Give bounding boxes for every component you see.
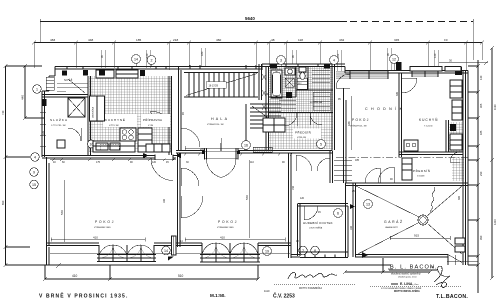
kitchen dresser right xyxy=(138,128,152,152)
bath dense fixtures extra xyxy=(279,70,330,110)
svg-text:KUCHYŇ: KUCHYŇ xyxy=(419,118,438,122)
svg-text:2: 2 xyxy=(151,58,153,62)
extension lines from dim row to walls xyxy=(34,22,482,72)
chimney black top kitchen xyxy=(99,70,105,76)
svg-text:118: 118 xyxy=(298,38,303,42)
svg-text:7: 7 xyxy=(302,249,304,253)
svg-text:690: 690 xyxy=(1,200,5,205)
bath boiler black xyxy=(286,92,292,98)
room label HUDEBNI KOUTEK xyxy=(303,221,333,230)
svg-text:305: 305 xyxy=(479,103,483,108)
wall pantry bottom xyxy=(42,95,88,98)
wall predsin entry left xyxy=(330,151,333,184)
garage vent squiggle xyxy=(431,187,435,213)
pantry shelf column xyxy=(46,77,54,90)
window french unit 1 xyxy=(97,245,156,262)
hala closet right xyxy=(263,118,285,132)
svg-text:V.ČTV. 3M: V.ČTV. 3M xyxy=(109,124,119,127)
svg-text:T.L.BACON.: T.L.BACON. xyxy=(436,294,468,300)
bath washbasin xyxy=(285,68,295,75)
title block BL BACON xyxy=(381,265,438,294)
svg-text:KUCHYNĚ: KUCHYNĚ xyxy=(105,117,126,122)
svg-text:CHODNÍK: CHODNÍK xyxy=(365,107,405,111)
svg-text:120: 120 xyxy=(152,161,157,164)
door arc pokoj1 from hall xyxy=(181,128,200,147)
svg-text:VÝŠKA MEZ. BES.: VÝŠKA MEZ. BES. xyxy=(94,226,111,229)
svg-text:WC: WC xyxy=(298,83,302,85)
svg-text:185: 185 xyxy=(479,130,483,135)
svg-text:VÝŠKA PODL. 3M: VÝŠKA PODL. 3M xyxy=(207,123,224,126)
room label PREDSIN right wing xyxy=(413,168,431,178)
hatch wc right xyxy=(448,122,463,152)
door arc kuchyn right wing xyxy=(402,78,417,93)
title block dotted rule xyxy=(370,286,462,288)
svg-text:MOTTO STAVEBNÍKA: MOTTO STAVEBNÍKA xyxy=(299,287,322,290)
svg-text:Č.V. 2253: Č.V. 2253 xyxy=(273,293,295,300)
door sill triangle pokoj1 xyxy=(168,257,174,261)
svg-text:3: 3 xyxy=(280,58,282,62)
svg-text:188: 188 xyxy=(347,121,351,126)
scattered tiny dimension numbers xyxy=(42,91,461,269)
door arc balcony from bath corridor xyxy=(336,74,350,88)
wall right wing pokoj-kuchyn xyxy=(399,73,402,157)
svg-text:140: 140 xyxy=(265,93,270,96)
garage corner triangle mark xyxy=(362,252,368,258)
sluzka wardrobe X xyxy=(68,98,85,117)
svg-text:LAVAGE MYTÍ: LAVAGE MYTÍ xyxy=(385,226,398,229)
window mullion ticks top wall left wing xyxy=(67,64,318,69)
wall music nook top xyxy=(298,204,349,207)
shaft marks left of bath xyxy=(262,74,266,110)
wall pokoj bottoms xyxy=(47,243,301,257)
svg-text:14: 14 xyxy=(164,249,168,253)
pantry extra shelf lines xyxy=(57,83,88,91)
svg-text:160: 160 xyxy=(350,225,353,230)
wall stair block right xyxy=(259,64,262,100)
svg-text:740: 740 xyxy=(1,110,5,115)
bottom dimension line right short xyxy=(343,258,432,274)
door arc predsin entry second xyxy=(317,158,330,171)
svg-text:HALA: HALA xyxy=(211,117,229,121)
kitchen range hood detail top xyxy=(96,70,138,78)
svg-text:1210: 1210 xyxy=(493,219,497,225)
door arc sluzka xyxy=(68,128,81,141)
right wing kuchyn fixtures xyxy=(404,134,462,151)
bath extra fixtures dark xyxy=(285,78,307,89)
svg-text:zkoušený stavitel, oprávněný: zkoušený stavitel, oprávněný xyxy=(391,272,421,275)
small tick marks row under kitchen wall xyxy=(50,153,293,161)
bath wc bowl xyxy=(299,67,306,80)
signature dotted underline xyxy=(274,284,356,286)
wall hala left vertical xyxy=(179,66,182,150)
staircase main treads xyxy=(184,73,258,98)
kitchen table dashed xyxy=(100,145,119,150)
svg-text:6: 6 xyxy=(337,211,339,215)
svg-text:440: 440 xyxy=(21,95,25,100)
door arc garage predsin xyxy=(365,168,380,183)
wall wc left xyxy=(446,120,449,152)
wall top outer right wing xyxy=(345,67,468,266)
title block dash marks E LINA xyxy=(391,284,398,285)
svg-text:VÝŠKA MEZ. BES.: VÝŠKA MEZ. BES. xyxy=(217,226,234,229)
interior dim vertical pokoj2 xyxy=(245,160,249,238)
window french unit 2 xyxy=(200,243,260,262)
pripravna counter xyxy=(146,144,170,152)
dimension line top overall xyxy=(40,19,473,24)
garage inner dim xyxy=(390,234,450,241)
garage drain circle xyxy=(418,215,428,225)
svg-text:120: 120 xyxy=(433,53,437,58)
svg-text:19: 19 xyxy=(265,249,269,253)
sluzka window sill marks xyxy=(40,112,46,146)
wall pripravna right vertical xyxy=(169,76,172,156)
garage right entrance hatch xyxy=(448,238,465,263)
svg-text:305: 305 xyxy=(396,91,399,96)
svg-text:1130: 1130 xyxy=(493,104,497,110)
svg-text:12: 12 xyxy=(392,57,396,61)
wall right outer xyxy=(463,71,466,266)
wall right wing pokoj left xyxy=(344,88,347,183)
door arc wc xyxy=(450,152,460,162)
room label HALA xyxy=(207,117,229,126)
room label PREDSIN entry xyxy=(293,129,321,140)
svg-text:120: 120 xyxy=(300,197,305,200)
svg-text:14: 14 xyxy=(134,57,138,61)
sluzka stove corner xyxy=(57,140,65,148)
staircase entry steps right of hala xyxy=(246,104,281,150)
svg-text:390: 390 xyxy=(458,195,461,200)
svg-text:410: 410 xyxy=(220,236,225,240)
axis bubbles top row xyxy=(132,55,399,65)
wall garage bottom xyxy=(355,255,448,266)
svg-text:V.PRL.3M: V.PRL.3M xyxy=(297,137,306,139)
dimension line right vertical 1 xyxy=(468,60,480,293)
entry steps outside xyxy=(334,160,352,180)
svg-text:100: 100 xyxy=(430,266,435,269)
svg-text:GARÁŽ: GARÁŽ xyxy=(384,219,404,224)
wall kitchen bottom xyxy=(42,156,176,159)
right wing closet predsin xyxy=(402,158,412,180)
wall garage top xyxy=(345,183,468,186)
svg-text:140: 140 xyxy=(479,75,483,80)
hala floor hatch box xyxy=(253,147,272,152)
wall garage left xyxy=(353,183,356,257)
svg-text:205: 205 xyxy=(200,148,205,151)
room label KUCHYN right wing xyxy=(419,118,438,128)
svg-text:410: 410 xyxy=(72,274,78,278)
bath door arcs lower xyxy=(284,113,322,126)
door opening pokoj2 french doors xyxy=(202,143,240,178)
handwritten signature xyxy=(288,272,337,279)
svg-text:5640: 5640 xyxy=(245,16,255,21)
bottom dimension line xyxy=(43,265,260,281)
room label POKOJ 2 xyxy=(217,220,238,229)
right corner tick line xyxy=(447,255,478,265)
hatch right porch xyxy=(452,157,464,181)
svg-text:180: 180 xyxy=(200,51,204,56)
svg-text:432: 432 xyxy=(339,38,344,42)
dimension numbers row2 xyxy=(50,38,448,42)
svg-text:8: 8 xyxy=(314,249,316,253)
wall left outer upper xyxy=(42,76,49,157)
interior dim vertical pokoj1 xyxy=(60,180,64,242)
svg-text:LOUKY MĚŘA: LOUKY MĚŘA xyxy=(309,227,323,230)
svg-text:úředně opráv. mistr: úředně opráv. mistr xyxy=(398,276,417,279)
bath partition walls xyxy=(268,66,333,113)
axis bubbles interior xyxy=(88,140,373,256)
wall sluzka-kitchen vertical xyxy=(88,76,91,156)
svg-text:483: 483 xyxy=(50,38,55,42)
svg-text:9: 9 xyxy=(33,170,35,174)
right wing chimney blacks xyxy=(455,67,462,75)
svg-text:1: 1 xyxy=(36,87,38,91)
svg-text:V. 3M: V. 3M xyxy=(148,125,153,127)
svg-text:4: 4 xyxy=(333,58,335,62)
room label KUCHYNE xyxy=(103,114,137,127)
svg-text:PŘÍPRAVNA: PŘÍPRAVNA xyxy=(143,117,162,122)
svg-text:180: 180 xyxy=(163,198,166,203)
svg-text:1 ČTV. PRL. 3M: 1 ČTV. PRL. 3M xyxy=(51,124,66,127)
axis dashdot garage xyxy=(336,157,470,159)
dimension text left outer xyxy=(1,110,5,205)
pantry door diagonal xyxy=(68,79,85,93)
hatch right window strip xyxy=(412,71,438,77)
door arc music nook xyxy=(304,206,318,220)
svg-text:390: 390 xyxy=(479,235,483,240)
svg-text:560: 560 xyxy=(60,210,64,215)
svg-text:T 2.24.30: T 2.24.30 xyxy=(424,126,433,128)
wall music nook left xyxy=(298,204,301,256)
svg-text:±0: ±0 xyxy=(444,38,448,42)
mark triangle music nook xyxy=(350,204,355,209)
garage diagonals to drain xyxy=(356,186,462,255)
dimension line top second xyxy=(32,41,484,45)
svg-text:PŘEDSÍŇ: PŘEDSÍŇ xyxy=(413,168,431,173)
wall left outer lower xyxy=(47,157,50,247)
dimension line left inner vertical xyxy=(23,64,44,120)
svg-text:16·17/29: 16·17/29 xyxy=(209,84,219,87)
svg-text:150: 150 xyxy=(292,185,295,190)
svg-text:345: 345 xyxy=(394,38,399,42)
kitchen counter with sink xyxy=(93,141,135,152)
door arc predsin entry xyxy=(296,155,312,171)
svg-text:HUDEBNÍ KOUTEK: HUDEBNÍ KOUTEK xyxy=(303,221,333,225)
door opening kitchen to pokoj1 xyxy=(143,153,181,181)
wall top outer bath block xyxy=(262,64,345,70)
room label POKOJ 1 xyxy=(94,220,115,229)
chimney black sluzka wall xyxy=(42,99,47,106)
svg-text:218: 218 xyxy=(173,38,178,42)
svg-text:16: 16 xyxy=(244,143,248,147)
room label POKOJ right wing xyxy=(350,118,370,128)
hala dim line xyxy=(185,146,244,150)
staircase label box xyxy=(206,82,226,89)
wall top outer left wing xyxy=(49,67,262,77)
svg-text:230: 230 xyxy=(479,171,483,176)
svg-text:POKOJ: POKOJ xyxy=(218,220,238,224)
svg-text:185: 185 xyxy=(355,159,360,162)
wall bath left xyxy=(266,66,269,150)
door arc kitchen leaf xyxy=(150,112,166,126)
svg-text:915: 915 xyxy=(414,234,419,238)
svg-text:V.2.60M: V.2.60M xyxy=(417,176,425,178)
facade outer step line xyxy=(50,253,290,255)
wall pokoj1-pokoj2 vertical xyxy=(178,153,181,247)
svg-text:4: 4 xyxy=(34,155,36,159)
interior dim line pokoj2 xyxy=(185,236,285,242)
room label GARAZ xyxy=(384,219,404,229)
title block underline xyxy=(389,269,437,271)
door arc right pokoj to predsin xyxy=(378,167,394,183)
hatch kitchen tiled floor xyxy=(89,76,172,152)
hatch balcony strip xyxy=(336,71,388,79)
svg-text:V BRNĚ V PROSINCI 1935.: V BRNĚ V PROSINCI 1935. xyxy=(39,292,129,300)
hatch bathroom block xyxy=(268,66,333,113)
svg-text:15: 15 xyxy=(32,183,36,187)
pokoj wall radiator column xyxy=(172,236,177,255)
hatch vestibule tiles xyxy=(268,113,333,149)
wall music nook right xyxy=(346,183,349,257)
svg-text:13: 13 xyxy=(366,202,370,206)
right wing window mullions top xyxy=(350,71,438,79)
bottom terrace line xyxy=(6,264,392,266)
svg-text:MOTTO INSTALATÉRA: MOTTO INSTALATÉRA xyxy=(394,290,420,293)
svg-text:1110: 1110 xyxy=(264,289,270,293)
wall bath right xyxy=(332,64,335,150)
music nook window posts xyxy=(300,252,348,258)
svg-text:48: 48 xyxy=(271,38,275,42)
svg-text:185: 185 xyxy=(136,38,141,42)
kitchen cabinet tall xyxy=(90,96,105,121)
title block flourish signature xyxy=(434,266,450,287)
terrace corner slash xyxy=(56,263,61,268)
svg-text:M.1:50.: M.1:50. xyxy=(210,293,226,298)
interior dim line pokoj1 xyxy=(51,236,145,242)
top right step dim line xyxy=(439,59,488,66)
svg-text:460: 460 xyxy=(216,38,221,42)
axis bubbles left column xyxy=(30,85,41,189)
svg-text:POKOJ: POKOJ xyxy=(352,118,370,122)
svg-text:5: 5 xyxy=(320,142,322,146)
door arcs pokoj2 double doors xyxy=(181,168,203,218)
dimension line right vertical 2 xyxy=(490,46,494,280)
svg-text:VÝŠKA PODL. 3M: VÝŠKA PODL. 3M xyxy=(350,125,367,128)
svg-text:110: 110 xyxy=(250,161,254,164)
svg-text:560: 560 xyxy=(245,195,249,200)
dimension line left outer vertical xyxy=(4,64,43,267)
svg-text:175: 175 xyxy=(96,161,101,164)
wall pokoj2 right vertical xyxy=(289,153,292,258)
svg-text:POKOJ: POKOJ xyxy=(95,220,115,224)
svg-text:SLUŽKA: SLUŽKA xyxy=(50,117,68,122)
kitchen stove burners xyxy=(120,128,136,141)
svg-text:448: 448 xyxy=(88,38,93,42)
bath tub xyxy=(271,70,282,98)
room label SLUZKA xyxy=(50,117,68,127)
svg-text:410: 410 xyxy=(93,236,98,240)
left wall lower continuation xyxy=(47,247,50,265)
wall right wing predsin top xyxy=(399,152,463,155)
bubble stems top xyxy=(136,63,394,143)
window dimension marks above wall xyxy=(100,51,437,58)
right wing wall cabinets xyxy=(450,80,462,120)
interior dim vertical right pokoj xyxy=(347,96,351,150)
svg-text:PŘEDSÍŇ: PŘEDSÍŇ xyxy=(295,130,311,135)
wall hall bottom / pokoj2 top xyxy=(176,151,332,154)
svg-text:510: 510 xyxy=(178,274,184,278)
room label PRIPRAVNA xyxy=(141,114,170,127)
svg-text:120: 120 xyxy=(42,130,45,135)
svg-text:KOUPELNA: KOUPELNA xyxy=(310,101,322,104)
svg-text:LEDNIČKA: LEDNIČKA xyxy=(92,107,95,118)
right wing window box top xyxy=(410,67,442,72)
